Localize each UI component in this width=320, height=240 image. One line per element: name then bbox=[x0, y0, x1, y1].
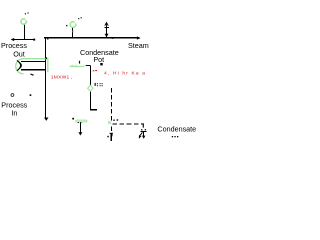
wire: vent stem V1 bbox=[23, 25, 25, 40]
svg-text:Pot: Pot bbox=[93, 55, 104, 64]
svg-text:4, Hi hr Ka a: 4, Hi hr Ka a bbox=[104, 70, 146, 76]
svg-text:1MXW1 ,: 1MXW1 , bbox=[51, 75, 73, 81]
ticks under drain bar bbox=[78, 122, 79, 123]
lower stub crossbar bbox=[110, 132, 113, 134]
drain bar (green) bbox=[76, 120, 87, 122]
drain handle dot bbox=[72, 118, 74, 120]
steam supply symbol: up arrow bbox=[105, 23, 109, 28]
bell mouth flare bbox=[17, 60, 21, 70]
arrow: process flow down bbox=[44, 118, 48, 121]
junction handle dots bbox=[113, 120, 114, 121]
handle dot left of V2 bbox=[66, 25, 67, 26]
tick top-right of capsule bbox=[46, 57, 47, 59]
pipe: steam header horizontal bbox=[44, 37, 139, 39]
handle dot near Process In bbox=[30, 94, 32, 96]
handle dots above V1 bbox=[25, 13, 26, 14]
svg-text:Steam: Steam bbox=[128, 41, 149, 50]
red dashes bbox=[93, 70, 95, 71]
tag marks right of diamond bbox=[95, 83, 96, 86]
svg-text:Condensate: Condensate bbox=[157, 124, 196, 133]
bell mouth pipe lines bbox=[21, 60, 46, 62]
signal line horizontal (dashed) bbox=[112, 123, 142, 125]
control valve: handle dots bbox=[141, 129, 142, 130]
tick above pot inlet bbox=[79, 61, 80, 64]
wire: left stub line with arrow bbox=[13, 39, 34, 41]
control valve: actuator T bbox=[141, 130, 147, 132]
endpoint circle near Process In bbox=[11, 94, 14, 97]
tick below corner bbox=[47, 38, 48, 39]
valve V2 circle (green) bbox=[70, 22, 76, 28]
lower signal stub bbox=[110, 127, 112, 132]
signal corner down to valve bbox=[141, 124, 143, 128]
flow arrow at valve (down-left) bbox=[140, 132, 142, 135]
pipe: pot inlet horizontal bbox=[86, 64, 91, 66]
svg-text:Out: Out bbox=[13, 49, 25, 58]
nozzle highlight capsule (green) bbox=[16, 59, 48, 74]
lower stub stem + arrowhead bbox=[110, 133, 112, 141]
steam supply symbol: stem bbox=[106, 27, 108, 37]
valve V1 circle (green) bbox=[21, 19, 26, 24]
pipe: pot outlet horizontal bbox=[90, 109, 97, 111]
pot inlet flare arrow (green) bbox=[69, 65, 84, 67]
steam supply symbol: down arrowhead bbox=[105, 34, 109, 38]
drain arrowhead down bbox=[78, 132, 82, 135]
steam supply symbol: crossbar bbox=[105, 26, 110, 28]
tick below capsule bbox=[30, 74, 33, 75]
drain stem bbox=[79, 122, 81, 132]
handle dot left of lower stub bbox=[107, 136, 109, 138]
valve diamond (green) bbox=[88, 85, 93, 91]
wire: vent stem V2 bbox=[72, 28, 74, 38]
green dot below V2 bbox=[73, 31, 75, 33]
svg-text:In: In bbox=[11, 108, 17, 117]
control valve: down arrowhead bbox=[142, 136, 145, 139]
black handle square bbox=[100, 63, 102, 65]
node: end dot of left stub bbox=[33, 39, 35, 41]
small marks under Condensate bbox=[172, 136, 173, 137]
arrow: steam outlet bbox=[137, 36, 141, 39]
pipe: pot vertical bbox=[89, 65, 91, 109]
junction green asterisk bbox=[108, 121, 111, 124]
node dot on steam line bbox=[112, 37, 114, 39]
handle dots above V2 bbox=[78, 18, 79, 19]
signal line vertical (dashed) bbox=[110, 88, 112, 121]
pipe: left process vertical bbox=[45, 38, 47, 118]
